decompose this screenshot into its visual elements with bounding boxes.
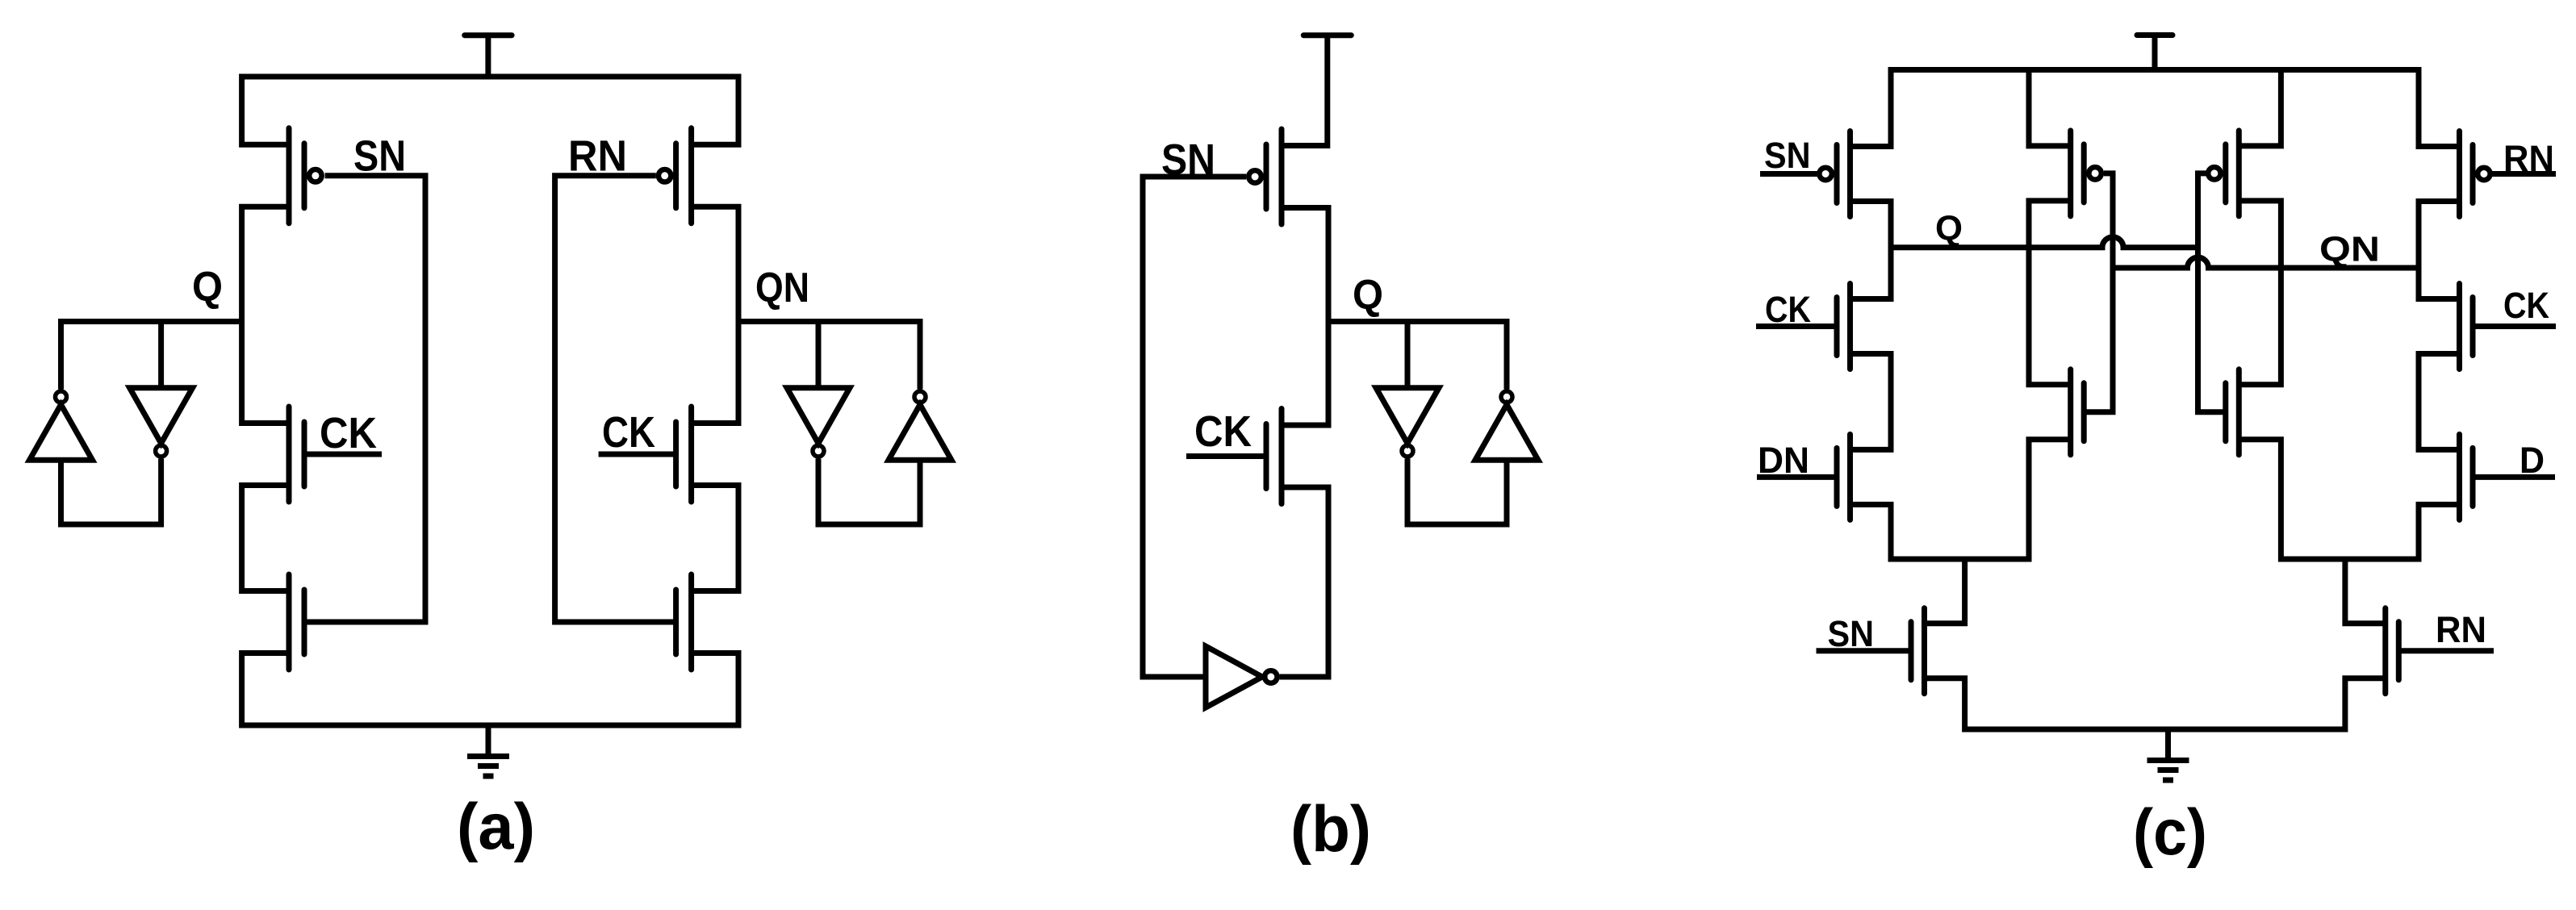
transistor M1c (PMOS, gate SN, left column) xyxy=(1819,131,1850,217)
inverter U2 (keeper, input from Q) xyxy=(130,322,193,457)
inverter U4 (keeper, output to QN) xyxy=(889,322,951,461)
wire: right tail tap down to M12c drain xyxy=(2345,559,2386,624)
wire: right tail - M8c source, right column foot, to M11c source stub xyxy=(2239,440,2459,559)
wire: M3c gate stub DN xyxy=(1757,474,1837,480)
svg-text:Q: Q xyxy=(1935,209,1963,248)
wire: node QN stub (a) xyxy=(738,319,923,324)
svg-text:DN: DN xyxy=(1758,440,1809,481)
transistor M6 (NMOS, bottom right) xyxy=(676,574,692,670)
svg-text:QN: QN xyxy=(2319,230,2380,269)
svg-text:CK: CK xyxy=(1194,407,1252,456)
transistor M1 (PMOS, gate SN, left) xyxy=(289,128,322,223)
wire: M2b source to inverter U5 output xyxy=(1280,487,1328,677)
wire: right branch, M2 drain through node QN to M4 drain xyxy=(692,207,738,423)
ground symbol (a) xyxy=(467,725,509,776)
inverter U1 (keeper, output to Q) xyxy=(30,322,93,461)
wire: left tail - M3c source, left column foot, to M5c source stub xyxy=(1850,440,2071,559)
transistor M12c (NMOS, gate RN, bottom right) xyxy=(2386,608,2399,694)
wire: rail drop to M4c source stub xyxy=(2029,70,2071,146)
wire: M11c gate stub D xyxy=(2473,474,2555,480)
svg-text:(c): (c) xyxy=(2133,796,2207,869)
wire: left column, M2c source to M3c drain xyxy=(1850,354,1892,450)
inverter U6 (keeper, input from Q) xyxy=(1376,322,1439,457)
wire: right column, M10c source to M11c drain xyxy=(2419,354,2460,450)
transistor M7c (NMOS, gate SN, bottom left) xyxy=(1911,608,1925,694)
wire: M2b gate stub CK xyxy=(1186,453,1265,459)
wire: SN net - M1b gate to inverter U5 input xyxy=(1143,177,1246,677)
wire: keeper feedback loop (b) xyxy=(1407,459,1507,525)
wire: M7c gate stub SN xyxy=(1817,648,1910,653)
transistor M3c (NMOS, gate DN, left column) xyxy=(1837,434,1850,520)
transistor M1b (PMOS, gate SN) xyxy=(1248,129,1282,224)
svg-text:CK: CK xyxy=(320,409,377,457)
wire: M12c gate stub RN xyxy=(2400,648,2494,653)
wire: M4c drain vertical through Q junction to M5c drain xyxy=(2029,201,2071,385)
transistor M10c (NMOS, gate CK, right column) xyxy=(2460,284,2474,369)
wire: keeper feedback loop (a left) xyxy=(61,459,161,525)
wire: right column, M9c drain through node QN to M10c drain xyxy=(2419,202,2460,299)
inverter U5 (input SN, right-pointing) xyxy=(1206,646,1278,708)
transistor M2b (NMOS, gate CK) xyxy=(1266,409,1282,504)
wire: M4 gate stub CK xyxy=(599,452,676,457)
power VDD symbol (b) with stem to M1b source stub xyxy=(1282,35,1351,146)
wire: node Q stub (b) xyxy=(1328,319,1510,324)
wire: left branch, M1 drain through node Q to M3 drain xyxy=(242,207,289,423)
wire: keeper feedback loop (a right) xyxy=(818,459,920,525)
transistor M8c (NMOS, right cross-coupled inverter) xyxy=(2226,369,2239,455)
wire: ground rail with M5/M6 source stubs xyxy=(242,653,738,726)
svg-text:RN: RN xyxy=(2436,609,2486,650)
svg-text:CK: CK xyxy=(2503,285,2549,326)
wire: ground rail (c) with M7c/M12c source stubs xyxy=(1925,678,2386,729)
transistor M11c (NMOS, gate D, right column) xyxy=(2460,434,2474,520)
power VDD symbol (c) xyxy=(2137,35,2172,70)
wire: VDD top rail with left/right column drops and M1c/M9c source stubs xyxy=(1850,70,2460,147)
svg-text:Q: Q xyxy=(1353,272,1383,319)
transistor M4c (PMOS, left cross-coupled inverter) xyxy=(2071,131,2101,216)
wire: right branch, M4 source to M6 drain xyxy=(692,486,738,591)
svg-text:D: D xyxy=(2520,440,2545,481)
transistor M4 (NMOS, gate CK, right) xyxy=(676,407,692,502)
ground symbol (c) xyxy=(2147,729,2189,780)
wire: right inverter gate net (driven by Q) xyxy=(2198,173,2226,412)
svg-text:RN: RN xyxy=(2503,138,2554,179)
wire: node QN (c) with hop over Q-gate net xyxy=(2113,257,2419,268)
svg-text:CK: CK xyxy=(602,408,655,457)
wire: M1c gate stub SN xyxy=(1760,171,1818,177)
svg-text:Q: Q xyxy=(192,264,223,311)
wire: SN net - M1 gate to M5 gate xyxy=(304,176,425,622)
wire: left inverter gate net (driven by QN) xyxy=(2085,173,2113,412)
transistor M2c (NMOS, gate CK, left column) xyxy=(1837,284,1850,369)
wire: node Q (c) with hop over QN-gate net xyxy=(1891,237,2198,248)
inverter U7 (keeper, output to Q) xyxy=(1475,322,1538,461)
wire: left column, M1c drain through node Q to M2c drain xyxy=(1850,202,1892,299)
transistor M5 (NMOS, bottom left) xyxy=(289,574,304,670)
svg-text:CK: CK xyxy=(1765,289,1811,330)
wire: node Q stub (a) xyxy=(58,319,242,324)
transistor M5c (NMOS, left cross-coupled inverter) xyxy=(2071,369,2085,455)
svg-text:SN: SN xyxy=(1828,613,1875,654)
inverter U3 (keeper, input from QN) xyxy=(787,322,850,457)
transistor M9c (PMOS, gate RN, right column) xyxy=(2460,131,2490,217)
transistor M6c (PMOS, right cross-coupled inverter) xyxy=(2208,131,2239,216)
wire: M6c drain vertical through QN junction to M8c drain xyxy=(2239,201,2281,385)
svg-text:RN: RN xyxy=(568,131,627,180)
wire: left branch, M3 source to M5 drain xyxy=(242,486,289,591)
svg-text:(a): (a) xyxy=(457,791,535,863)
transistor M3 (NMOS, gate CK, left) xyxy=(289,407,304,502)
svg-text:SN: SN xyxy=(1764,135,1811,176)
wire: M2c gate stub CK xyxy=(1756,324,1837,329)
transistor M2 (PMOS, gate RN, right) xyxy=(659,128,692,223)
svg-text:SN: SN xyxy=(1161,136,1215,184)
svg-text:SN: SN xyxy=(353,131,406,180)
svg-text:(b): (b) xyxy=(1290,793,1371,866)
power VDD symbol (a) xyxy=(465,35,512,77)
wire: left tail tap down to M7c drain xyxy=(1925,559,1965,624)
wire: M9c gate stub RN xyxy=(2492,171,2556,177)
wire: RN net - M2 gate to M6 gate xyxy=(555,176,676,622)
wire: M1b drain through node Q to M2b drain xyxy=(1282,208,1328,426)
wire: M3 gate stub CK xyxy=(304,452,382,457)
wire: M10c gate stub CK xyxy=(2473,324,2556,329)
wire: VDD rail with left/right branch drops and M1/M2 source stubs xyxy=(242,77,738,144)
svg-text:QN: QN xyxy=(755,265,809,311)
wire: rail drop to M6c source stub xyxy=(2239,70,2281,146)
